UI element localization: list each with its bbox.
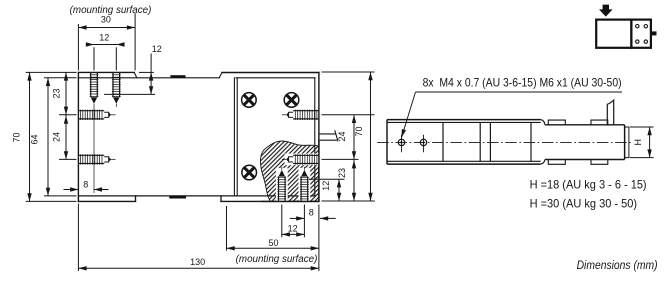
right side screw 2 <box>282 154 319 164</box>
top plate lower line <box>387 121 541 123</box>
12 right-side arrows <box>337 179 341 187</box>
50 arrows <box>227 246 235 250</box>
dim line 12 right side <box>338 179 340 201</box>
phillips screw top-left <box>242 93 257 108</box>
bottom left pad line <box>78 200 135 202</box>
70 right arrows <box>368 72 372 80</box>
dim line 8 bottom right <box>290 217 305 219</box>
callout underline <box>416 91 623 93</box>
svg-text:64: 64 <box>30 134 40 144</box>
dim line 30 <box>78 27 135 29</box>
centerline <box>377 141 633 143</box>
bottom stud 2 <box>300 170 309 201</box>
bottom stud 2 stub <box>303 167 305 170</box>
bottom plate upper line <box>387 160 541 162</box>
icon hole 1 <box>636 25 639 28</box>
bottom plate lower line <box>387 163 541 165</box>
flexure slot line 3 <box>489 122 491 161</box>
top screw 1 <box>90 72 99 103</box>
hole 2 <box>420 139 426 145</box>
redraw body right edge over hatch <box>318 140 320 201</box>
svg-text:50: 50 <box>268 238 278 248</box>
icon hole 4 <box>644 40 647 43</box>
top right pad line <box>222 72 319 74</box>
clearance around bottom stud 1 <box>276 168 288 201</box>
ext line body left down <box>77 204 79 271</box>
svg-text:12: 12 <box>321 181 331 191</box>
svg-text:H =30 (AU kg 30 - 50): H =30 (AU kg 30 - 50) <box>530 196 638 210</box>
svg-text:8: 8 <box>309 207 314 217</box>
leader line callout <box>402 92 416 138</box>
bottom tab 1 <box>548 160 565 165</box>
flexure slot line 2 <box>479 122 481 161</box>
ext line pad1 right corner <box>134 13 136 70</box>
ext line stud thread depth <box>309 178 345 180</box>
ext line 50 left <box>226 206 228 251</box>
arrowheads left view <box>27 25 372 270</box>
leader arrowhead <box>399 129 406 138</box>
bar bottom line right section <box>545 159 625 161</box>
svg-text:70: 70 <box>12 132 22 142</box>
icon body left <box>596 20 631 48</box>
24 left arrows <box>64 116 68 124</box>
clearance around right side screw 2 <box>285 154 319 166</box>
ext line screw2 center up <box>115 47 117 70</box>
left side screw 2 <box>78 154 115 164</box>
hole 1 center dot <box>400 141 402 143</box>
cable exit left view <box>320 130 338 141</box>
dim line 24 left <box>65 115 67 160</box>
dim line 130 <box>78 267 319 269</box>
svg-text:30: 30 <box>101 15 111 25</box>
ext line stud2 down <box>303 205 305 238</box>
svg-text:24: 24 <box>52 132 62 142</box>
top left pad chamfer <box>134 72 137 77</box>
bottom right pad line <box>221 200 319 202</box>
bar right edge <box>624 125 626 160</box>
24 right arrows <box>352 115 356 123</box>
bottom left pad step <box>135 196 137 202</box>
icon load arrow <box>599 5 613 17</box>
ext line pad top left <box>26 71 77 73</box>
bottom elastomer seal mark <box>169 196 186 199</box>
hole 2 center dot <box>422 141 424 143</box>
right side screw 1 <box>282 110 319 120</box>
12 top arrows (outside) <box>86 42 94 46</box>
dim line 12 bottom <box>282 233 305 235</box>
130 arrows <box>78 266 86 270</box>
ext line stud1 down <box>281 205 283 238</box>
dim line 8 bottom left <box>64 189 79 191</box>
23 right arrows <box>352 160 356 168</box>
body left edge <box>77 72 79 201</box>
svg-text:8x M4 x 0.7 (AU 3-6-15) M6 x1: 8x M4 x 0.7 (AU 3-6-15) M6 x1 (AU 30-50) <box>423 75 622 89</box>
top plate upper line <box>387 119 541 121</box>
dim line 24 right <box>353 115 355 160</box>
ext line body left top <box>77 24 79 70</box>
plate end step bottom <box>541 160 545 165</box>
cover plate left joint double line <box>233 78 235 196</box>
top left pad line <box>78 71 134 73</box>
70 left arrows <box>27 72 31 80</box>
bar left edge <box>386 120 388 165</box>
svg-text:70: 70 <box>354 126 364 136</box>
phillips screw bottom-left <box>242 165 257 180</box>
64 arrows <box>46 78 50 86</box>
dim line 12 right vertical <box>150 54 152 95</box>
ext line face bottom left <box>44 195 77 197</box>
clearance around bottom stud 2 <box>299 168 311 201</box>
dim line 50 <box>227 247 319 249</box>
icon cable stub <box>652 31 657 35</box>
hole 2 tick <box>423 135 425 152</box>
icon hole 2 <box>644 25 647 28</box>
svg-text:8: 8 <box>83 180 88 190</box>
phillips screw top-right <box>284 93 299 108</box>
top tab 1 <box>548 120 565 125</box>
bottom stud 1 stub <box>281 167 283 170</box>
dim line 70 right <box>370 72 372 201</box>
H ext line top <box>630 126 654 128</box>
icon body right <box>631 20 651 48</box>
ext line body right down <box>318 205 320 271</box>
dim line 23 left <box>65 72 67 114</box>
bar top line right section <box>545 124 625 126</box>
ext line pad bottom left <box>26 200 77 202</box>
top screw 2 <box>112 72 121 103</box>
svg-text:12: 12 <box>99 32 109 42</box>
30 arrows <box>78 25 86 29</box>
dim line 12 top <box>86 44 124 46</box>
ext line bottom right <box>322 200 375 202</box>
dim line 23 right <box>353 159 355 201</box>
bottom tab 2 <box>591 160 608 165</box>
body right edge <box>318 73 320 202</box>
svg-text:23: 23 <box>337 168 347 178</box>
flexure slot line 1 <box>442 122 444 161</box>
top tab 2 <box>591 120 608 125</box>
top screw 1 centerline <box>93 104 95 193</box>
ext line screw1 center up <box>93 47 95 70</box>
top elastomer seal mark <box>170 75 185 78</box>
broken-out section hatch <box>260 141 318 201</box>
12 right vertical arrows <box>149 72 153 80</box>
ext line screw2 row right <box>322 158 359 160</box>
top face line <box>78 77 219 79</box>
12 bottom arrows <box>282 232 290 236</box>
svg-text:24: 24 <box>337 131 347 141</box>
hole 1 tick <box>401 135 403 152</box>
hole 1 <box>398 139 404 145</box>
svg-text:12: 12 <box>152 44 162 54</box>
ext line pad level for 12 <box>139 71 154 73</box>
H arrows <box>647 127 651 135</box>
23 left arrows <box>64 72 68 80</box>
svg-text:23: 23 <box>52 88 62 98</box>
redraw bottom pad edge over clearances <box>261 200 319 202</box>
bottom stud 1 <box>277 170 286 201</box>
8 bottom-right arrows (outside) <box>296 216 304 220</box>
top right pad chamfer <box>219 73 222 78</box>
texts left view <box>12 5 364 267</box>
svg-text:Dimensions (mm): Dimensions (mm) <box>577 258 658 272</box>
svg-text:H =18 (AU kg 3 - 6 - 15): H =18 (AU kg 3 - 6 - 15) <box>530 178 647 192</box>
cover plate top line <box>236 77 315 79</box>
left side screw 1 <box>78 110 115 120</box>
plate end step top <box>541 120 545 125</box>
dim line 70 left <box>29 72 31 201</box>
ext line screw2 row left <box>59 158 77 160</box>
H ext line bottom <box>630 157 654 159</box>
svg-text:12: 12 <box>288 224 298 234</box>
ext line face top left <box>44 77 77 79</box>
ext line screw1 row left <box>59 114 77 116</box>
svg-text:130: 130 <box>190 257 205 267</box>
end cap <box>625 127 629 158</box>
bottom face line <box>78 195 314 197</box>
dim line 64 <box>47 78 49 196</box>
flexure slot line 4 <box>530 122 532 161</box>
H dim line <box>649 127 651 158</box>
ext line thread depth for 12 <box>104 93 155 95</box>
8 bottom-left arrows (outside) <box>70 187 78 191</box>
cover plate right edge <box>314 78 316 196</box>
ext lines right chain top <box>322 71 375 73</box>
cable rising <box>607 100 613 125</box>
top screw 2 center stub <box>115 104 117 107</box>
svg-text:H: H <box>633 139 643 146</box>
icon hole 3 <box>636 40 639 43</box>
svg-text:(mounting surface): (mounting surface) <box>236 254 318 265</box>
ext line screw1 row right <box>322 114 375 116</box>
bottom right pad step <box>220 196 222 202</box>
